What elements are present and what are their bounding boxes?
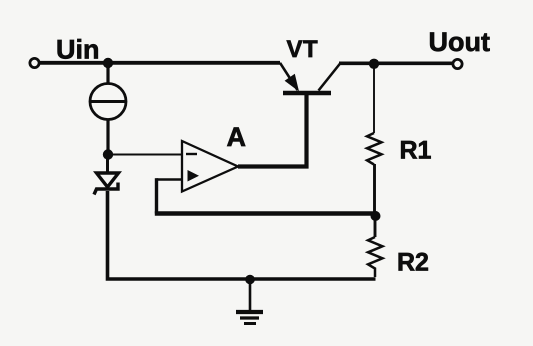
wire collector to Uout terminal xyxy=(339,61,453,65)
resistor R1 (zigzag) xyxy=(367,133,382,165)
collector line xyxy=(319,63,341,91)
wire feedback vertical xyxy=(155,178,158,213)
wire ground stem xyxy=(249,280,252,310)
wire zener bottom down and along bottom rail to R2 bottom xyxy=(108,191,376,279)
op-amp plus input marker (arrow glyph) xyxy=(188,170,200,182)
base bar xyxy=(283,91,331,96)
op-amp A (triangle) xyxy=(182,141,238,192)
wire node to zener top xyxy=(106,155,109,174)
svg-text:Uout: Uout xyxy=(429,27,490,57)
svg-text:A: A xyxy=(227,122,247,152)
node junction at ground tap xyxy=(245,275,255,285)
node junction at Uout / R1 top xyxy=(369,59,379,69)
wire R1 bottom to divider node xyxy=(373,164,376,216)
node junction R1/R2 divider tap xyxy=(371,211,381,221)
wire Uout node down to R1 xyxy=(373,66,375,133)
node junction at Uin rail / current source xyxy=(103,58,113,68)
transistor VT (PNP pass transistor) xyxy=(280,63,341,93)
zener diode VD1 xyxy=(94,173,119,195)
wire op-amp output to transistor base xyxy=(238,95,307,167)
node junction at zener / op-amp inverting input xyxy=(103,149,113,159)
svg-text:Uin: Uin xyxy=(56,35,100,65)
op-amp minus input marker xyxy=(186,153,197,155)
svg-text:R2: R2 xyxy=(397,249,429,277)
emitter line xyxy=(280,63,298,90)
terminal Uin (input, open circle) xyxy=(30,58,39,67)
emitter arrow xyxy=(285,74,299,92)
wire junction to current source top xyxy=(106,63,109,84)
wire divider node to R2 top xyxy=(374,217,377,237)
svg-text:VT: VT xyxy=(287,36,319,63)
ground symbol xyxy=(236,312,263,324)
wire node to op-amp inverting input xyxy=(108,154,182,156)
wire op-amp non-inverting input feedback: left, down, then right to R1/R2 node xyxy=(157,178,183,181)
wire current source bottom to node xyxy=(106,120,109,155)
svg-text:R1: R1 xyxy=(400,137,432,165)
resistor R2 (zigzag) xyxy=(368,237,383,277)
wire feedback horizontal to divider node xyxy=(155,211,377,215)
wire top rail: Uin terminal to transistor emitter xyxy=(40,61,281,65)
terminal Uout (open circle) xyxy=(453,59,462,68)
current source I1 (circle with horizontal bar) xyxy=(90,84,126,120)
